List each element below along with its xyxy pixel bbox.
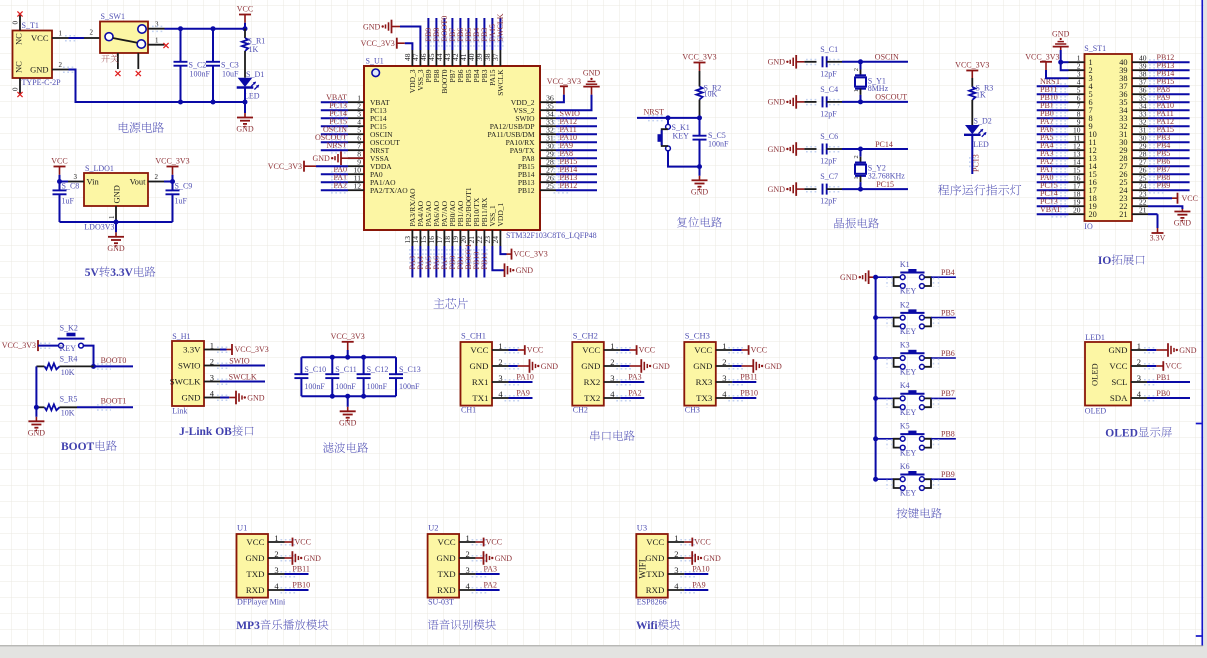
svg-text:GND: GND bbox=[768, 145, 786, 154]
svg-text:1K: 1K bbox=[976, 90, 986, 99]
svg-text:IO: IO bbox=[1098, 255, 1111, 267]
svg-text:1: 1 bbox=[59, 30, 63, 38]
svg-text:PB0: PB0 bbox=[1156, 389, 1170, 398]
svg-text:KEY: KEY bbox=[900, 408, 917, 417]
svg-text:GND: GND bbox=[1174, 219, 1192, 228]
svg-text:1: 1 bbox=[210, 341, 214, 351]
svg-text:S_D1: S_D1 bbox=[246, 70, 264, 79]
svg-text:3.3V: 3.3V bbox=[1150, 234, 1166, 243]
svg-text:SCL: SCL bbox=[1111, 377, 1127, 387]
svg-text:2: 2 bbox=[466, 549, 470, 559]
svg-text:VCC: VCC bbox=[438, 537, 456, 547]
svg-text:20: 20 bbox=[1089, 210, 1097, 219]
svg-text:VCC: VCC bbox=[246, 537, 264, 547]
svg-text:GND: GND bbox=[236, 125, 254, 134]
svg-text:RX1: RX1 bbox=[472, 377, 489, 387]
svg-text:100nF: 100nF bbox=[367, 382, 388, 391]
svg-text:S_LDO1: S_LDO1 bbox=[85, 164, 114, 173]
svg-text:1: 1 bbox=[274, 533, 278, 543]
svg-text:K4: K4 bbox=[900, 381, 910, 390]
svg-text:KEY: KEY bbox=[900, 448, 917, 457]
svg-text:PA10: PA10 bbox=[516, 373, 534, 382]
svg-text:SWCLK: SWCLK bbox=[496, 69, 505, 96]
svg-text:GND: GND bbox=[304, 554, 322, 563]
svg-text:S_C10: S_C10 bbox=[304, 365, 326, 374]
svg-text:21: 21 bbox=[1139, 206, 1147, 215]
svg-text:10K: 10K bbox=[61, 408, 75, 417]
svg-text:TXD: TXD bbox=[646, 569, 664, 579]
svg-text:VCC_3V3: VCC_3V3 bbox=[514, 250, 548, 259]
svg-text:PB10: PB10 bbox=[740, 389, 758, 398]
svg-text:LED: LED bbox=[244, 92, 260, 101]
svg-text:VCC: VCC bbox=[582, 345, 600, 355]
svg-text:PB10: PB10 bbox=[292, 581, 310, 590]
svg-text:KEY: KEY bbox=[900, 287, 917, 296]
svg-text:VCC_3V3: VCC_3V3 bbox=[361, 39, 395, 48]
svg-text:VCC: VCC bbox=[646, 537, 664, 547]
svg-text:PB4: PB4 bbox=[941, 268, 955, 277]
svg-text:2: 2 bbox=[610, 357, 614, 367]
svg-text:1: 1 bbox=[674, 533, 678, 543]
svg-text:3: 3 bbox=[498, 373, 502, 383]
svg-text:U1: U1 bbox=[237, 523, 247, 533]
svg-text:20: 20 bbox=[1073, 206, 1081, 215]
svg-text:VCC: VCC bbox=[486, 538, 502, 547]
svg-text:GND: GND bbox=[339, 418, 357, 427]
svg-text:BOOT: BOOT bbox=[61, 441, 95, 453]
svg-text:Vout: Vout bbox=[130, 176, 147, 186]
svg-text:PA10: PA10 bbox=[692, 565, 710, 574]
svg-text:1: 1 bbox=[853, 176, 860, 179]
svg-text:100nF: 100nF bbox=[399, 382, 420, 391]
svg-text:PA3: PA3 bbox=[628, 373, 642, 382]
svg-text:VCC_3V3: VCC_3V3 bbox=[1025, 52, 1059, 61]
svg-text:K3: K3 bbox=[900, 341, 910, 350]
svg-text:PB11: PB11 bbox=[292, 565, 310, 574]
svg-text:NC: NC bbox=[14, 33, 24, 45]
svg-text:TXD: TXD bbox=[438, 569, 456, 579]
svg-text:ESP8266: ESP8266 bbox=[637, 598, 667, 607]
svg-text:S_C13: S_C13 bbox=[399, 365, 421, 374]
svg-text:3: 3 bbox=[1137, 373, 1141, 383]
svg-text:S_C3: S_C3 bbox=[221, 60, 239, 69]
svg-text:S_C8: S_C8 bbox=[62, 182, 80, 191]
svg-text:PA9: PA9 bbox=[516, 389, 530, 398]
svg-text:VCC: VCC bbox=[295, 538, 311, 547]
svg-text:10uF: 10uF bbox=[222, 69, 239, 78]
svg-text:3.3V: 3.3V bbox=[183, 344, 201, 354]
svg-text:SDA: SDA bbox=[1110, 393, 1128, 403]
svg-text:1: 1 bbox=[108, 215, 116, 219]
svg-text:PB5: PB5 bbox=[941, 308, 955, 317]
svg-text:STM32F103C8T6_LQFP48: STM32F103C8T6_LQFP48 bbox=[506, 231, 597, 240]
svg-text:S_C2: S_C2 bbox=[189, 60, 207, 69]
svg-text:PB11: PB11 bbox=[740, 373, 758, 382]
svg-text:VCC_3V3: VCC_3V3 bbox=[155, 157, 189, 166]
svg-text:S_C11: S_C11 bbox=[335, 365, 357, 374]
svg-text:S_CH1: S_CH1 bbox=[461, 331, 486, 341]
svg-text:10K: 10K bbox=[61, 368, 75, 377]
svg-text:4: 4 bbox=[498, 389, 503, 399]
svg-text:RX3: RX3 bbox=[696, 377, 713, 387]
svg-text:GND: GND bbox=[1108, 345, 1127, 355]
svg-text:SU-03T: SU-03T bbox=[428, 598, 454, 607]
svg-text:OSCIN: OSCIN bbox=[875, 53, 899, 62]
svg-text:S_CH2: S_CH2 bbox=[573, 331, 598, 341]
svg-text:12pF: 12pF bbox=[820, 69, 837, 78]
svg-text:3.3V: 3.3V bbox=[110, 267, 133, 279]
svg-text:GND: GND bbox=[703, 554, 721, 563]
svg-text:S_C7: S_C7 bbox=[820, 172, 838, 181]
svg-text:1: 1 bbox=[722, 341, 726, 351]
svg-text:SWIO: SWIO bbox=[229, 357, 250, 366]
svg-text:GND: GND bbox=[107, 244, 125, 253]
svg-text:GND: GND bbox=[1052, 30, 1070, 39]
svg-text:2: 2 bbox=[155, 173, 159, 181]
svg-text:VCC: VCC bbox=[527, 346, 543, 355]
svg-text:GND: GND bbox=[247, 393, 265, 402]
svg-text:PB7: PB7 bbox=[941, 389, 955, 398]
svg-text:0: 0 bbox=[12, 21, 20, 25]
svg-text:3: 3 bbox=[74, 173, 78, 181]
svg-text:100nF: 100nF bbox=[335, 382, 356, 391]
svg-text:J-Link OB: J-Link OB bbox=[179, 426, 232, 438]
svg-text:SWCLK: SWCLK bbox=[170, 376, 201, 386]
svg-text:KEY: KEY bbox=[673, 132, 690, 141]
svg-text:PC13: PC13 bbox=[972, 154, 981, 172]
svg-text:GND: GND bbox=[653, 362, 671, 371]
svg-text:VCC_3V3: VCC_3V3 bbox=[331, 332, 365, 341]
svg-text:VCC: VCC bbox=[751, 346, 767, 355]
svg-text:VCC_3V3: VCC_3V3 bbox=[955, 61, 989, 70]
svg-text:U2: U2 bbox=[428, 523, 438, 533]
svg-text:GND: GND bbox=[495, 554, 513, 563]
svg-text:PC15: PC15 bbox=[876, 180, 894, 189]
svg-text:2: 2 bbox=[59, 61, 63, 69]
svg-text:OLED: OLED bbox=[1085, 407, 1107, 416]
svg-text:GND: GND bbox=[645, 553, 664, 563]
svg-text:2: 2 bbox=[498, 357, 502, 367]
svg-text:4: 4 bbox=[274, 581, 279, 591]
svg-text:VCC: VCC bbox=[639, 346, 655, 355]
svg-text:VCC: VCC bbox=[1109, 361, 1127, 371]
svg-text:VCC_3V3: VCC_3V3 bbox=[235, 345, 269, 354]
svg-text:GND: GND bbox=[437, 553, 456, 563]
svg-text:4: 4 bbox=[610, 389, 615, 399]
svg-text:OLED: OLED bbox=[1105, 428, 1138, 440]
svg-text:TXD: TXD bbox=[246, 569, 264, 579]
svg-text:Wifi: Wifi bbox=[636, 620, 658, 632]
svg-text:VCC: VCC bbox=[694, 538, 710, 547]
svg-text:PB9: PB9 bbox=[941, 470, 955, 479]
svg-text:S_C1: S_C1 bbox=[820, 45, 838, 54]
svg-text:GND: GND bbox=[28, 428, 46, 437]
svg-text:S_C9: S_C9 bbox=[175, 182, 193, 191]
svg-text:GND: GND bbox=[541, 362, 559, 371]
svg-text:GND: GND bbox=[691, 187, 709, 196]
svg-text:LDO3V3: LDO3V3 bbox=[84, 223, 114, 232]
svg-text:12: 12 bbox=[354, 181, 362, 190]
svg-text:K2: K2 bbox=[900, 300, 910, 309]
svg-text:RXD: RXD bbox=[646, 585, 665, 595]
svg-text:Link: Link bbox=[172, 407, 187, 416]
svg-text:S_R4: S_R4 bbox=[60, 355, 78, 364]
svg-text:PB8: PB8 bbox=[941, 430, 955, 439]
svg-text:BOOT0: BOOT0 bbox=[101, 356, 127, 365]
svg-text:S_ST1: S_ST1 bbox=[1084, 44, 1106, 53]
svg-text:2: 2 bbox=[674, 549, 678, 559]
svg-text:OLED: OLED bbox=[1090, 363, 1100, 386]
svg-text:1: 1 bbox=[155, 36, 159, 44]
svg-text:KEY: KEY bbox=[60, 344, 77, 353]
svg-text:VCC: VCC bbox=[694, 345, 712, 355]
svg-text:GND: GND bbox=[181, 392, 200, 402]
svg-text:S_SW1: S_SW1 bbox=[101, 12, 125, 21]
svg-text:GND: GND bbox=[768, 98, 786, 107]
svg-text:2: 2 bbox=[90, 29, 94, 37]
svg-text:PB1: PB1 bbox=[1156, 373, 1170, 382]
svg-text:VCC: VCC bbox=[31, 33, 49, 43]
svg-text:GND: GND bbox=[768, 185, 786, 194]
svg-text:RXD: RXD bbox=[437, 585, 456, 595]
svg-text:1: 1 bbox=[498, 341, 502, 351]
svg-text:BOOT1: BOOT1 bbox=[101, 397, 127, 406]
svg-text:VCC: VCC bbox=[1182, 194, 1198, 203]
svg-text:NRST: NRST bbox=[327, 141, 348, 150]
svg-text:TYPE-C-2P: TYPE-C-2P bbox=[22, 78, 62, 87]
svg-text:PA2: PA2 bbox=[334, 181, 348, 190]
svg-text:DFPlayer Mini: DFPlayer Mini bbox=[237, 598, 286, 607]
svg-text:SWCLK: SWCLK bbox=[229, 373, 257, 382]
svg-text:3: 3 bbox=[610, 373, 614, 383]
svg-text:25: 25 bbox=[546, 181, 554, 190]
svg-text:4: 4 bbox=[1137, 389, 1142, 399]
svg-text:8MHz: 8MHz bbox=[868, 84, 889, 93]
svg-text:1uF: 1uF bbox=[62, 196, 75, 205]
svg-text:VCC_3V3: VCC_3V3 bbox=[268, 162, 302, 171]
svg-text:24: 24 bbox=[491, 236, 500, 244]
svg-text:RX2: RX2 bbox=[584, 377, 601, 387]
svg-text:GND: GND bbox=[581, 361, 600, 371]
svg-text:2: 2 bbox=[1137, 357, 1141, 367]
svg-text:VCC: VCC bbox=[51, 157, 67, 166]
svg-text:PA3: PA3 bbox=[484, 565, 498, 574]
svg-text:CH1: CH1 bbox=[461, 406, 476, 415]
svg-text:4: 4 bbox=[210, 389, 215, 399]
svg-text:U3: U3 bbox=[637, 523, 647, 533]
svg-text:37: 37 bbox=[491, 53, 500, 61]
svg-text:3: 3 bbox=[274, 565, 278, 575]
svg-text:1: 1 bbox=[466, 533, 470, 543]
svg-text:TX2: TX2 bbox=[584, 393, 600, 403]
svg-text:1uF: 1uF bbox=[175, 196, 188, 205]
svg-text:PB12: PB12 bbox=[518, 186, 535, 195]
svg-text:K1: K1 bbox=[900, 260, 910, 269]
svg-text:2: 2 bbox=[210, 357, 214, 367]
svg-text:K6: K6 bbox=[900, 462, 910, 471]
svg-text:S_D2: S_D2 bbox=[974, 117, 992, 126]
svg-text:1K: 1K bbox=[249, 45, 259, 54]
svg-text:32.768KHz: 32.768KHz bbox=[868, 171, 906, 180]
svg-text:PA2/TX/AO: PA2/TX/AO bbox=[370, 186, 408, 195]
svg-text:1: 1 bbox=[1137, 341, 1141, 351]
svg-text:S_R5: S_R5 bbox=[60, 395, 78, 404]
svg-text:0: 0 bbox=[12, 87, 20, 91]
svg-text:MP3: MP3 bbox=[236, 620, 260, 632]
svg-text:GND: GND bbox=[312, 154, 330, 163]
svg-text:PA2: PA2 bbox=[484, 581, 498, 590]
svg-text:4: 4 bbox=[722, 389, 727, 399]
svg-text:KEY: KEY bbox=[900, 489, 917, 498]
svg-text:PC14: PC14 bbox=[875, 140, 893, 149]
svg-text:1: 1 bbox=[853, 89, 860, 92]
svg-text:21: 21 bbox=[1119, 210, 1127, 219]
svg-text:3: 3 bbox=[466, 565, 470, 575]
svg-text:GND: GND bbox=[30, 64, 48, 74]
svg-text:SWIO: SWIO bbox=[178, 360, 200, 370]
svg-text:GND: GND bbox=[516, 266, 534, 275]
svg-text:PA2: PA2 bbox=[628, 389, 642, 398]
svg-text:2: 2 bbox=[853, 68, 860, 71]
svg-text:S_C6: S_C6 bbox=[820, 132, 838, 141]
svg-text:VCC: VCC bbox=[237, 5, 253, 14]
svg-text:S_U1: S_U1 bbox=[366, 57, 384, 66]
svg-text:CH2: CH2 bbox=[573, 406, 588, 415]
svg-text:PA9: PA9 bbox=[692, 581, 706, 590]
svg-text:S_CH3: S_CH3 bbox=[685, 331, 710, 341]
svg-text:K5: K5 bbox=[900, 422, 910, 431]
svg-text:Vin: Vin bbox=[87, 176, 100, 186]
svg-text:1: 1 bbox=[610, 341, 614, 351]
svg-text:VCC: VCC bbox=[1165, 362, 1181, 371]
svg-text:GND: GND bbox=[1179, 346, 1197, 355]
svg-text:GND: GND bbox=[112, 185, 122, 203]
svg-text:VCC: VCC bbox=[470, 345, 488, 355]
svg-text:IO: IO bbox=[1084, 222, 1093, 231]
svg-text:2: 2 bbox=[722, 357, 726, 367]
svg-text:VCC_3V3: VCC_3V3 bbox=[682, 53, 716, 62]
svg-text:3: 3 bbox=[674, 565, 678, 575]
svg-text:4: 4 bbox=[674, 581, 679, 591]
svg-text:100nF: 100nF bbox=[304, 382, 325, 391]
svg-text:GND: GND bbox=[583, 69, 601, 78]
svg-text:S_C4: S_C4 bbox=[820, 85, 838, 94]
svg-text:5V: 5V bbox=[85, 267, 100, 279]
svg-text:S_H1: S_H1 bbox=[172, 332, 190, 341]
svg-text:S_T1: S_T1 bbox=[22, 21, 39, 30]
svg-text:2: 2 bbox=[853, 155, 860, 158]
svg-text:VDD_1: VDD_1 bbox=[496, 203, 505, 227]
svg-text:S_C12: S_C12 bbox=[367, 365, 389, 374]
svg-text:GND: GND bbox=[245, 553, 264, 563]
svg-text:LED1: LED1 bbox=[1085, 333, 1105, 342]
svg-text:OSCOUT: OSCOUT bbox=[875, 93, 907, 102]
svg-text:3: 3 bbox=[210, 373, 214, 383]
svg-text:12pF: 12pF bbox=[820, 109, 837, 118]
svg-text:10K: 10K bbox=[704, 90, 718, 99]
svg-text:3: 3 bbox=[722, 373, 726, 383]
svg-text:VCC_3V3: VCC_3V3 bbox=[547, 77, 581, 86]
svg-text:PB6: PB6 bbox=[941, 349, 955, 358]
svg-text:CH3: CH3 bbox=[685, 406, 700, 415]
svg-text:2: 2 bbox=[274, 549, 278, 559]
svg-text:GND: GND bbox=[765, 362, 783, 371]
svg-text:12pF: 12pF bbox=[820, 157, 837, 166]
svg-text:GND: GND bbox=[693, 361, 712, 371]
svg-text:LED: LED bbox=[973, 140, 989, 149]
svg-text:VBAT: VBAT bbox=[1040, 205, 1061, 214]
svg-text:GND: GND bbox=[363, 22, 381, 31]
svg-text:KEY: KEY bbox=[900, 368, 917, 377]
svg-text:TX1: TX1 bbox=[472, 393, 488, 403]
svg-text:GND: GND bbox=[840, 273, 858, 282]
svg-text:12pF: 12pF bbox=[820, 197, 837, 206]
svg-text:VCC_3V3: VCC_3V3 bbox=[2, 341, 36, 350]
svg-text:S_K2: S_K2 bbox=[60, 324, 78, 333]
svg-text:100nF: 100nF bbox=[708, 140, 729, 149]
svg-text:KEY: KEY bbox=[900, 327, 917, 336]
svg-text:RXD: RXD bbox=[246, 585, 265, 595]
svg-text:100nF: 100nF bbox=[190, 69, 211, 78]
svg-text:TX3: TX3 bbox=[696, 393, 713, 403]
svg-text:NC: NC bbox=[14, 61, 24, 73]
svg-text:GND: GND bbox=[768, 58, 786, 67]
svg-text:GND: GND bbox=[469, 361, 488, 371]
